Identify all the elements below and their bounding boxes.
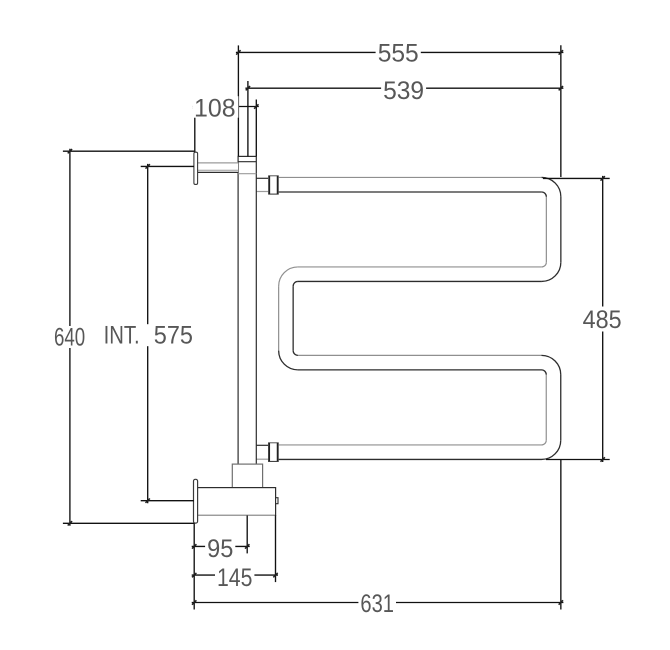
dim 631 line (192, 602, 564, 604)
bar4 top edge (279, 444, 542, 446)
ticks INT575 (146, 164, 150, 168)
dimension texts (53, 40, 624, 618)
conn23 left edge (278, 286, 280, 350)
dim 555 extension right (560, 45, 562, 177)
dim 485 extension top (543, 177, 610, 179)
dim 539 line (245, 87, 563, 89)
ticks 640 (68, 149, 72, 153)
bar1 bottom edge (268, 191, 541, 193)
bar2 top edge (298, 266, 542, 268)
dim 145 extension right (275, 515, 277, 582)
ticks 95 (192, 544, 196, 548)
bottom wall flange (194, 479, 198, 523)
text 108 (192, 96, 238, 118)
dim 640 extension top (63, 150, 194, 152)
svg-text:640: 640 (54, 324, 85, 352)
dimensions (63, 45, 610, 609)
inner arc conn34-bar4 (542, 440, 547, 445)
inner arc conn12-bar2 (542, 262, 547, 267)
outer arc bar1-conn12 (542, 177, 561, 196)
text 95 (205, 537, 235, 558)
bottom stub pipe (256, 444, 268, 446)
inner arc bar3-conn34 (542, 370, 547, 375)
inner arc conn23-bar3 (293, 351, 298, 356)
text 539 (381, 79, 426, 99)
top mounting post (238, 156, 256, 464)
conn12 right edge (560, 197, 562, 263)
dim 95 extension right (246, 515, 248, 553)
top arm (198, 163, 239, 173)
outer arc conn34-bar4 (542, 440, 561, 459)
dim 145 line (192, 574, 278, 576)
outer arc conn23-bar3 (279, 351, 298, 370)
bar3 top edge (298, 354, 542, 356)
conn34 right edge (560, 375, 562, 441)
post divider line (238, 173, 256, 175)
svg-text:631: 631 (360, 590, 394, 618)
bar3 bottom edge (298, 369, 542, 371)
dim 631 extension left (shared) (193, 523, 195, 609)
top coupling (268, 176, 279, 194)
conn12 left edge (545, 197, 547, 263)
svg-text:95: 95 (207, 535, 233, 563)
text 631 (358, 592, 396, 614)
text INT575 (99, 324, 195, 346)
top wall flange (194, 152, 198, 184)
dimension ticks (68, 50, 605, 605)
dim 485 line upper (602, 176, 604, 307)
serpentine tube dark edges (268, 177, 561, 459)
text 555 (376, 42, 421, 62)
dim 555 line (236, 51, 564, 53)
text 145 (215, 566, 254, 588)
top stub pipe (256, 177, 268, 179)
ticks 145 (192, 573, 196, 577)
dim 108 extension left (194, 100, 196, 153)
dim 108 line (192, 106, 258, 108)
text 485 (581, 308, 624, 330)
inner arc bar1-conn12 (542, 192, 547, 197)
svg-text:555: 555 (378, 40, 419, 68)
dim INT575 line (147, 164, 149, 503)
text 640 (53, 326, 89, 348)
dim 485 extension bottom (546, 459, 610, 461)
svg-text:108: 108 (194, 94, 236, 122)
conn23 right edge (292, 286, 294, 350)
dim 108 extension right (255, 100, 257, 157)
serpentine tube gray edges (279, 177, 547, 445)
dim 640 line (69, 149, 71, 526)
bar4 bottom edge (268, 458, 541, 460)
dim 95 line (192, 545, 250, 547)
dim 485 line lower (602, 332, 604, 463)
outer arc conn12-bar2 (542, 262, 561, 281)
dim 640 extension bottom (63, 522, 194, 524)
svg-text:575: 575 (154, 321, 193, 349)
ticks 631 (192, 600, 196, 604)
ticks 485 (601, 176, 605, 180)
outer arc bar2-conn23 (279, 267, 298, 286)
dim INT575 extension top (141, 165, 194, 167)
post cap line (238, 161, 256, 163)
bottom coupling (268, 443, 279, 462)
inner arc bar2-conn23 (293, 281, 298, 286)
bar1 top edge (279, 176, 542, 178)
svg-text:539: 539 (383, 77, 424, 105)
outer arc bar3-conn34 (542, 355, 561, 374)
ticks 539 (246, 86, 250, 90)
dim 555 extension left (post left edge up) (237, 45, 239, 156)
bar2 bottom edge (298, 280, 542, 282)
dim INT575 extension bottom (141, 500, 194, 502)
bottom housing (197, 488, 278, 516)
svg-text:145: 145 (217, 564, 252, 592)
bottom collar block (232, 464, 262, 488)
conn34 left edge (545, 375, 547, 441)
dim 539 extension left (247, 81, 249, 156)
switch nub (276, 498, 278, 504)
ticks 555 (236, 50, 240, 54)
svg-text:485: 485 (583, 306, 622, 334)
svg-text:INT.: INT. (104, 321, 140, 349)
dim 631 extension right (560, 460, 562, 610)
ticks 108 (193, 104, 197, 108)
